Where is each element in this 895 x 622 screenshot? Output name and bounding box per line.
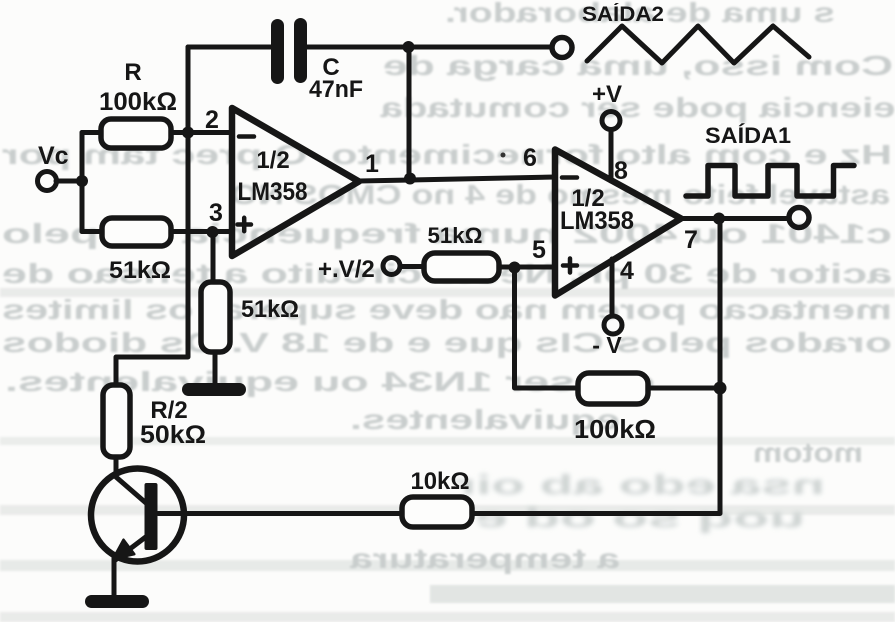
- node speck near pin 6: [501, 153, 506, 158]
- svg-text:- V: - V: [592, 332, 622, 358]
- node junction feedback riser: [714, 382, 727, 395]
- wire pin2 input line: [82, 130, 232, 135]
- svg-text:1: 1: [365, 150, 379, 178]
- terminal +V: [602, 112, 620, 130]
- wire top rail from corner to capacitor: [188, 45, 271, 50]
- svg-text:LM358: LM358: [560, 207, 634, 235]
- op-amp U1b minus sign: [562, 175, 577, 180]
- svg-text:mentacao porem nao deve supera: mentacao porem nao deve superar os limit…: [2, 294, 892, 325]
- resistor 51k vertical box: [201, 282, 230, 352]
- waveform square SAIDA1: [686, 166, 854, 197]
- wire op2 pin4 to -V: [610, 259, 615, 316]
- transistor Q1 base bar: [145, 483, 158, 550]
- terminal +V/2: [383, 258, 400, 275]
- wire op2 plus node down to 100k feedback: [515, 268, 579, 389]
- svg-text:6: 6: [523, 144, 537, 172]
- svg-text:nsa edo ab oir: nsa edo ab oir: [455, 469, 825, 500]
- svg-text:51kΩ: 51kΩ: [241, 296, 299, 323]
- wire Vc lead: [56, 179, 82, 184]
- resistor 10k box: [402, 497, 472, 527]
- svg-text:100kΩ: 100kΩ: [574, 414, 656, 444]
- wire 100k to right riser: [648, 386, 720, 391]
- wire 51k to op2 pin5: [499, 265, 555, 270]
- op-amp U1b triangle: [555, 150, 681, 296]
- resistor R 100k horizontal box: [101, 119, 171, 148]
- transistor Q1 emitter arrow: [113, 540, 134, 559]
- svg-text:orados pelos CIs que e de 18 V: orados pelos CIs que e de 18 V. Os diodo…: [2, 327, 892, 358]
- svg-text:4: 4: [620, 257, 634, 285]
- svg-text:Com isso, uma carga de: Com isso, uma carga de: [383, 50, 893, 81]
- node junction rail-riser: [403, 41, 415, 53]
- wire op2 plus input lead from 51k: [400, 264, 424, 269]
- node junction pin2: [182, 127, 194, 139]
- transistor Q1 circle: [91, 469, 184, 562]
- ground bar under 51k: [182, 383, 246, 396]
- svg-text:51kΩ: 51kΩ: [109, 257, 171, 284]
- svg-text:+.V/2: +.V/2: [318, 256, 375, 283]
- op-amp U1a triangle: [232, 108, 359, 256]
- wire 10k resistor to right vertical riser: [472, 219, 720, 514]
- resistor 51k box at op2 plus input: [424, 253, 499, 281]
- svg-text:SAÍDA2: SAÍDA2: [582, 3, 664, 26]
- svg-text:astavel feito mesmo de 4 no CM: astavel feito mesmo de 4 no CMOS NO: [230, 179, 890, 210]
- wire 51k vertical resistor to ground: [213, 352, 218, 384]
- svg-text:uoq so od e: uoq so od e: [475, 502, 805, 533]
- terminal SAIDA2: [552, 38, 572, 58]
- wire capacitor right to SAIDA2 terminal: [307, 45, 551, 50]
- svg-text:LM358: LM358: [238, 178, 308, 206]
- wire op2 output to SAIDA1 terminal: [681, 216, 789, 221]
- svg-text:47nF: 47nF: [309, 76, 363, 103]
- terminal SAIDA1: [789, 208, 809, 228]
- svg-text:R/2: R/2: [150, 397, 187, 424]
- wire +V to op2 pin8: [609, 130, 614, 181]
- wire left vertical from rail down and jog to R/2: [116, 47, 188, 386]
- svg-text:+V: +V: [592, 81, 622, 108]
- wire transistor base to 10k resistor: [158, 511, 402, 516]
- svg-text:10kΩ: 10kΩ: [411, 468, 470, 495]
- node junction op1 output: [404, 173, 416, 185]
- waveform triangle SAIDA2: [587, 26, 809, 63]
- svg-text:a temperatura: a temperatura: [349, 543, 620, 574]
- op-amp U1b plus sign: [563, 259, 577, 273]
- svg-text:1/2: 1/2: [256, 147, 289, 174]
- wire emitter down to ground: [112, 557, 117, 595]
- svg-text:8: 8: [614, 157, 628, 185]
- resistor 51k horizontal box (pin3): [102, 218, 171, 246]
- svg-text:7: 7: [684, 226, 698, 254]
- svg-text:5: 5: [532, 236, 546, 264]
- node junction op2 output: [713, 213, 725, 225]
- capacitor C plate left: [271, 19, 284, 84]
- node junction Vc: [76, 175, 88, 187]
- wire R/2 to transistor collector: [116, 457, 146, 503]
- svg-text:Vc: Vc: [38, 142, 69, 170]
- terminal -V: [604, 316, 622, 334]
- svg-text:3: 3: [209, 199, 223, 227]
- svg-text:50kΩ: 50kΩ: [140, 421, 206, 449]
- resistor R/2 50k vertical box: [103, 385, 130, 457]
- wire transistor emitter diagonal: [114, 536, 147, 561]
- op-amp U1a minus sign: [239, 134, 254, 139]
- svg-text:motom: motom: [753, 437, 863, 468]
- wire pin3 input line: [82, 229, 232, 234]
- node junction op2 pin5: [509, 262, 521, 274]
- wire Vc vertical joining both inputs: [80, 133, 85, 232]
- wire pin3 node down to 51k vertical resistor: [211, 232, 216, 283]
- svg-text:SAÍDA1: SAÍDA1: [705, 123, 791, 148]
- svg-text:eiencia pode ser comutada: eiencia pode ser comutada: [380, 92, 895, 123]
- wire vertical from rail to op1 output: [407, 47, 412, 178]
- terminal Vc: [38, 172, 57, 191]
- node junction pin3: [207, 226, 219, 238]
- ground bar under transistor: [85, 595, 149, 608]
- svg-text:100kΩ: 100kΩ: [99, 88, 177, 116]
- svg-text:2: 2: [205, 106, 219, 134]
- svg-text:51kΩ: 51kΩ: [428, 223, 483, 248]
- resistor 100k feedback box: [578, 373, 648, 404]
- wire op1 output to op2 pin6: [359, 177, 555, 181]
- op-amp U1a plus sign: [238, 218, 252, 231]
- capacitor C plate right: [294, 18, 307, 83]
- svg-text:R: R: [124, 59, 141, 86]
